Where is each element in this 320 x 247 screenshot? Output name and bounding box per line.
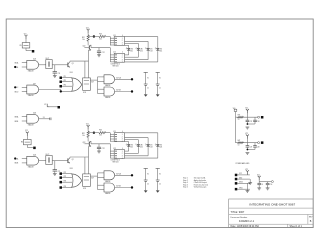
svg-text:C37: C37 — [250, 121, 253, 123]
wire node N11 stub — [88, 36, 94, 38]
junction dot OUT2A — [131, 174, 133, 176]
svg-text:Date: 11/05/2003 09:24:35d: Date: 11/05/2003 09:24:35d — [231, 225, 260, 228]
svg-text:LED: LED — [130, 48, 133, 50]
wire N11 to R13 — [94, 36, 99, 38]
svg-text:LED: LED — [140, 145, 143, 147]
LED D12 — [136, 47, 143, 52]
LED D13 — [145, 47, 152, 52]
svg-text:HDR 1X4: HDR 1X4 — [113, 66, 119, 68]
capacitor C38 — [247, 117, 259, 124]
svg-text:VDD: VDD — [233, 108, 236, 110]
wire J22.3 to LED23 — [125, 148, 149, 156]
svg-text:10k: 10k — [82, 135, 85, 137]
port P12 — [60, 80, 73, 83]
svg-text:TITLE: 9067: TITLE: 9067 — [231, 211, 245, 214]
ground below C11 — [53, 76, 57, 78]
open port circle decoupling — [271, 181, 273, 183]
wire emitter node to J22 bus — [91, 143, 110, 145]
power flag VDD — [233, 108, 237, 117]
label under J12 — [111, 63, 120, 67]
port dot PU1 — [32, 50, 35, 53]
svg-text:V2: V2 — [147, 173, 149, 175]
svg-text:C9: C9 — [261, 184, 263, 186]
junction dot OUT2B — [131, 186, 133, 188]
capacitor C21 — [53, 161, 61, 174]
svg-text:LED: LED — [140, 48, 143, 50]
LED D21 — [126, 143, 133, 148]
port P21 — [60, 172, 73, 175]
svg-text:LED: LED — [160, 48, 163, 50]
power port SHLD — [235, 187, 250, 190]
svg-text:LED: LED — [160, 145, 163, 147]
wire J22 pin 4 left — [110, 157, 114, 159]
svg-text:C38: C38 — [257, 121, 260, 123]
test probe TP11 — [144, 72, 149, 96]
port dot PWR3 — [261, 116, 264, 119]
svg-text:D13: D13 — [150, 51, 153, 53]
transistor Q21 — [68, 158, 74, 163]
wire VCC to rail 4 — [246, 139, 248, 143]
svg-text:VCC: VCC — [25, 130, 28, 132]
input port IN1A — [15, 61, 27, 64]
OR gate U1C — [70, 72, 82, 91]
svg-text:U1B: U1B — [33, 83, 36, 85]
wire branch to gates U1E U1F — [98, 77, 105, 94]
wire J12.1 to LED11 — [125, 52, 129, 55]
svg-text:C10: C10 — [270, 184, 273, 186]
wire J11 pin 1 left — [110, 37, 114, 39]
transistor Q12 — [82, 45, 91, 50]
capacitor C9 — [257, 182, 263, 188]
wire J21 pin 3 left — [110, 138, 114, 140]
ground PWR4 — [246, 153, 250, 155]
svg-text:10k: 10k — [82, 39, 85, 41]
wire J21.3 to LED22 — [125, 140, 139, 144]
wire J11 pin 4 left — [110, 44, 114, 46]
svg-text:GND2: GND2 — [239, 182, 243, 184]
wire J12 pin 2 left — [110, 56, 114, 58]
svg-text:240: 240 — [99, 135, 102, 137]
power rail 3 — [236, 116, 258, 118]
label under J22 — [111, 160, 120, 164]
svg-text:C11: C11 — [58, 73, 61, 75]
decoupling rail — [259, 181, 271, 183]
ground below C12 — [97, 55, 101, 57]
svg-text:9-DEMO-2-1: 9-DEMO-2-1 — [239, 219, 255, 223]
junction dot port P14 — [60, 90, 62, 92]
input port IN2B — [15, 163, 27, 165]
svg-text:J22: J22 — [113, 148, 116, 150]
svg-text:1.0: 1.0 — [238, 145, 240, 147]
resistor R23 — [99, 130, 106, 137]
port P24 — [60, 186, 73, 189]
notes text block — [183, 177, 208, 189]
wire branch to gates U2E U2F — [98, 173, 105, 190]
wire J21 pin 1 left — [110, 133, 114, 135]
one-shot logic box U2D — [83, 174, 91, 190]
title block sheet divider — [287, 224, 289, 227]
ground bottom ports 1 — [248, 179, 252, 185]
junction dot OUT1B — [131, 90, 133, 92]
open port circle 4 — [258, 142, 260, 144]
svg-text:V2: V2 — [159, 173, 161, 175]
ground PWR3 — [246, 127, 250, 129]
LED D24 — [155, 143, 162, 148]
power port GND2 — [235, 182, 250, 185]
wire Q21 collector rail — [70, 157, 89, 158]
svg-text:R5: R5 — [20, 45, 22, 47]
wire J12.2 to LED12 — [125, 52, 139, 58]
svg-text:VCC: VCC — [245, 169, 248, 171]
AND gate U2F — [104, 183, 115, 195]
svg-text:Q12: Q12 — [82, 46, 85, 48]
wire Q12 base — [84, 47, 89, 49]
title block REV divider — [307, 215, 309, 225]
svg-text:SHLD: SHLD — [239, 187, 243, 189]
port dot PU2 — [33, 147, 36, 150]
svg-text:R13: R13 — [99, 33, 102, 35]
input port IN1B — [15, 67, 27, 69]
wire J22.2 to LED22 — [125, 148, 139, 154]
wire Q11 collector rail — [70, 61, 89, 62]
svg-text:V1: V1 — [159, 77, 161, 79]
test probe TP21 — [144, 168, 149, 192]
svg-text:C2: C2 — [159, 183, 161, 185]
resistor R47 — [238, 140, 244, 147]
wire Q12 collector emitter — [89, 45, 92, 50]
wire J21.2 to LED23 — [125, 138, 149, 144]
wire node N21 stub — [88, 132, 94, 134]
VCC arrow PWR4 — [245, 133, 249, 139]
pull-up network R6 (mid left) — [21, 130, 33, 147]
port P23 — [60, 181, 73, 184]
wire DLY1 to Q11 base — [52, 64, 68, 66]
wire J21 pin 2 left — [110, 136, 114, 138]
wire U2E output — [115, 172, 132, 175]
svg-text:C1: C1 — [159, 87, 161, 89]
svg-text:D12: D12 — [140, 51, 143, 53]
svg-text:R6: R6 — [21, 142, 23, 144]
svg-text:240: 240 — [99, 38, 102, 40]
transistor Q11 — [68, 62, 74, 67]
OR gate U2C — [70, 168, 82, 187]
capacitor C48 — [247, 143, 259, 150]
LED D23 — [145, 143, 152, 148]
AND gate U2E — [104, 171, 115, 183]
wire J12.4 to LED14 — [125, 52, 158, 62]
ground below C22 — [97, 151, 101, 153]
junction dot on IN1C — [14, 86, 16, 88]
svg-text:R23: R23 — [99, 130, 102, 132]
wire J21 pin 4 left — [110, 140, 114, 142]
ground below C21 — [53, 174, 57, 176]
wire U1B output to OR — [39, 90, 72, 92]
wire rail into one-shot box pins — [85, 50, 89, 78]
connector J11 — [113, 35, 124, 47]
wire VCC to rail 3 — [246, 113, 248, 117]
svg-text:D24: D24 — [160, 147, 163, 149]
svg-text:IN3B: IN3B — [15, 121, 19, 123]
wire J12 pin 3 left — [110, 59, 114, 61]
svg-text:VCC: VCC — [239, 173, 242, 175]
wire U1F output — [115, 90, 132, 92]
svg-text:V1: V1 — [147, 77, 149, 79]
connector J21 — [113, 131, 124, 143]
vertical bus left of J12 — [109, 48, 111, 62]
wire J22 pin 1 left — [110, 150, 114, 152]
title block row line 3 — [229, 223, 314, 225]
svg-text:R22: R22 — [82, 133, 85, 135]
input port IN2A — [15, 157, 27, 160]
junction dot under C47 — [247, 149, 249, 151]
svg-text:X2: X2 — [44, 104, 46, 106]
VCC symbol one-shot 1 — [86, 27, 90, 33]
AND gate U1B — [27, 83, 39, 97]
power port GND — [235, 177, 250, 180]
svg-text:DLY2: DLY2 — [46, 154, 50, 156]
svg-text:C12: C12 — [102, 52, 105, 54]
svg-text:J11: J11 — [113, 35, 116, 37]
junction dot under C37 — [247, 123, 249, 125]
wire J11 pin 3 left — [110, 42, 114, 44]
svg-text:Q22: Q22 — [82, 142, 85, 144]
resistor R37 — [238, 115, 244, 122]
wire VCC to R22 — [87, 129, 89, 131]
ground bottom ports 2 — [246, 183, 250, 192]
port dot X2 — [58, 106, 61, 109]
wire Q22 base — [84, 143, 89, 145]
input port IN1D — [15, 92, 27, 94]
input port IN1C — [15, 87, 27, 89]
port P13 — [60, 85, 73, 88]
wire U3A output to off-page — [39, 117, 51, 120]
resistor R13 — [99, 33, 106, 40]
svg-text:R37: R37 — [238, 115, 241, 117]
svg-text:D22: D22 — [140, 147, 143, 149]
svg-text:C22: C22 — [102, 148, 105, 150]
svg-text:R14: R14 — [70, 72, 73, 74]
open port circle 3 — [258, 116, 260, 118]
vertical bus left of J22 — [109, 144, 111, 158]
wire J22 pin 3 left — [110, 155, 114, 157]
wire box U2D output — [90, 176, 97, 179]
wire J12.3 to LED13 — [125, 52, 149, 60]
svg-text:R47: R47 — [238, 140, 241, 142]
svg-text:D11: D11 — [130, 51, 133, 53]
svg-text:R24: R24 — [70, 168, 73, 170]
svg-text:OUT1B: OUT1B — [116, 90, 121, 92]
resistor R12 — [82, 35, 89, 41]
capacitor C11 — [53, 65, 61, 76]
svg-text:Sheet 1 of 1: Sheet 1 of 1 — [290, 225, 303, 228]
svg-text:D23: D23 — [150, 147, 153, 149]
AND gate U1A — [27, 58, 39, 73]
AND gate U3A — [27, 112, 39, 127]
wire R23 to J21 bus — [106, 132, 111, 134]
capacitor C22 — [97, 144, 105, 151]
vertical bus left of J21 — [109, 133, 111, 142]
junction dot node N11 — [93, 35, 95, 37]
wire J22 pin 2 left — [110, 152, 114, 154]
svg-text:VCC: VCC — [245, 133, 248, 135]
wire Q22 collector emitter — [89, 141, 92, 146]
wire N21 to R23 — [94, 132, 99, 134]
svg-text:IN2B: IN2B — [15, 163, 19, 165]
title block row line 2 — [229, 214, 314, 216]
wire J11.1 to LED14 — [125, 37, 158, 48]
wire U2F output — [115, 186, 132, 188]
port P22 — [60, 176, 73, 179]
svg-text:LED: LED — [130, 145, 133, 147]
transistor Q22 — [82, 141, 91, 146]
svg-text:CONN PCB 4: CONN PCB 4 — [111, 160, 120, 162]
wire rail into one-shot box pins — [85, 147, 89, 174]
svg-text:C48: C48 — [257, 146, 260, 148]
wire VCC to R12 — [87, 33, 89, 35]
junction dot on IN2A — [14, 157, 16, 159]
LED D22 — [136, 143, 143, 148]
VCC arrow PWR3 — [245, 108, 249, 114]
svg-text:Q2: Q2 — [72, 159, 74, 161]
delay network DLY2 — [46, 154, 53, 165]
ground under C9 — [257, 188, 261, 190]
svg-text:CONN PCB 4: CONN PCB 4 — [111, 63, 120, 65]
wire R13 to J11 bus — [106, 36, 111, 38]
svg-text:VCC: VCC — [24, 33, 27, 35]
svg-text:LED: LED — [150, 145, 153, 147]
wire J12 pin 4 left — [110, 61, 114, 63]
wire J11.2 to LED13 — [125, 41, 149, 47]
wire J22.1 to LED21 — [125, 148, 129, 151]
wire J22.4 to LED24 — [125, 148, 158, 158]
power port VCC — [235, 173, 250, 176]
AND gate U1E — [104, 75, 115, 87]
svg-text:VCC: VCC — [86, 124, 89, 126]
svg-text:C2: C2 — [147, 183, 149, 185]
svg-text:VCC: VCC — [245, 108, 248, 110]
LED D14 — [155, 47, 162, 52]
connector J22 — [113, 148, 124, 160]
AND gate U1F — [104, 87, 115, 99]
port dot PWR4 — [261, 141, 264, 144]
capacitor C37 — [246, 117, 253, 125]
junction dot on IN1B — [14, 66, 16, 68]
svg-text:D21: D21 — [130, 147, 133, 149]
svg-text:Document Number: Document Number — [231, 216, 248, 219]
svg-text:GND: GND — [239, 177, 242, 179]
svg-text:X3: X3 — [43, 117, 45, 119]
capacitor C47 — [246, 143, 253, 151]
svg-text:OUT: OUT — [91, 177, 94, 179]
title block row line 1 — [229, 207, 314, 209]
svg-text:LED: LED — [150, 48, 153, 50]
off-page port X2 — [44, 104, 58, 107]
wire box U1D output — [90, 80, 97, 83]
svg-text:D14: D14 — [160, 51, 163, 53]
wire U1E output — [115, 76, 132, 79]
VCC symbol one-shot 2 — [86, 124, 90, 130]
svg-text:C47: C47 — [250, 146, 253, 148]
input port IN3B — [15, 121, 27, 123]
wire R12 to Q12 — [87, 41, 89, 45]
AND gate U2A — [27, 154, 39, 169]
svg-text:J12: J12 — [113, 52, 116, 54]
pull-up network R5 (top left) — [20, 33, 32, 50]
title block outline — [229, 199, 314, 228]
port P11 — [60, 76, 73, 79]
svg-text:R12: R12 — [82, 37, 85, 39]
VCC arrow bottom ports — [245, 169, 249, 175]
test probe TP12 — [156, 72, 161, 96]
svg-text:OUT: OUT — [91, 81, 94, 83]
delay network DLY1 — [46, 58, 53, 69]
ground under C10 — [266, 188, 270, 190]
svg-text:DLY1: DLY1 — [46, 58, 50, 60]
one-shot logic box U1D — [83, 78, 91, 94]
wire J11.4 to LED11 — [125, 45, 129, 47]
wire R22 to Q22 — [87, 137, 89, 141]
wire VDD down to group 2 — [235, 117, 237, 143]
wire J11.3 to LED12 — [125, 43, 139, 47]
svg-text:1.0: 1.0 — [238, 119, 240, 121]
svg-text:VCC: VCC — [257, 175, 260, 177]
wire emitter node to J12 bus — [91, 47, 110, 49]
svg-text:Q1: Q1 — [72, 63, 74, 65]
svg-text:VCC: VCC — [86, 27, 89, 29]
resistor R22 — [82, 131, 89, 137]
power rail 4 — [236, 142, 258, 144]
wire J21.1 to LED24 — [125, 133, 158, 144]
wire J11 pin 2 left — [110, 40, 114, 42]
wire J21.4 to LED21 — [125, 142, 129, 144]
junction dot OUT1A — [131, 78, 133, 80]
svg-text:OUT2B: OUT2B — [116, 186, 121, 188]
wire U1A output — [39, 64, 46, 66]
wire DLY2 to Q21 base — [52, 160, 68, 162]
wire U2A output — [39, 160, 46, 162]
capacitor C12 — [97, 48, 105, 55]
svg-text:HDR 1X4: HDR 1X4 — [113, 162, 119, 164]
LED D11 — [126, 47, 133, 52]
svg-text:C1: C1 — [147, 87, 149, 89]
vertical bus left of J11 — [109, 37, 111, 46]
test probe TP22 — [156, 168, 161, 192]
connector J12 — [113, 52, 124, 64]
input port IN3A — [15, 115, 27, 118]
VCC arrow decoupling — [257, 175, 261, 182]
svg-text:J21: J21 — [113, 131, 116, 133]
junction dot node N21 — [93, 132, 95, 134]
svg-text:INTEGRATING ONE-SHOT 9067: INTEGRATING ONE-SHOT 9067 — [249, 202, 295, 206]
wire J12 pin 1 left — [110, 54, 114, 56]
capacitor C10 — [266, 182, 273, 188]
